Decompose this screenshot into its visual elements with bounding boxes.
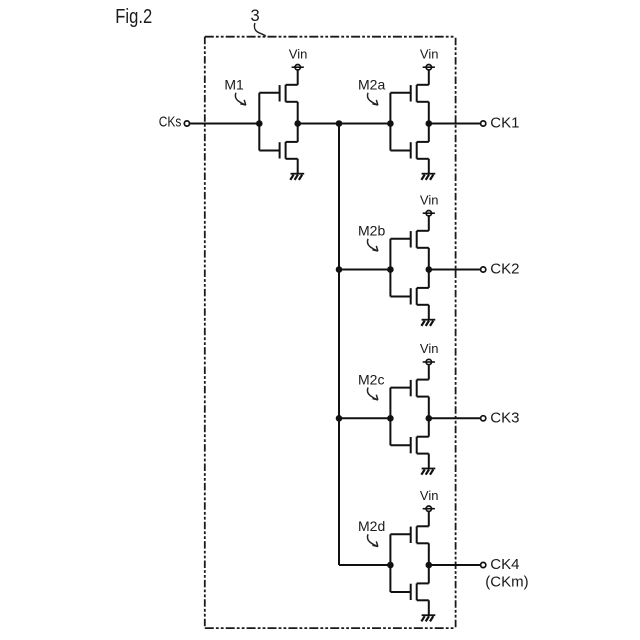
transistor M2b NMOS [390, 288, 428, 305]
wire M2c NMOS source to ground [428, 454, 430, 469]
wire bus corner to M2d gate node [339, 564, 390, 566]
wire M2a output to terminal CK1 [429, 123, 481, 125]
wire M2b output node to NMOS drain [428, 270, 430, 288]
block 3 dash-dot border top edge [205, 36, 456, 38]
wire M2b gate line [389, 239, 391, 297]
svg-text:CK4: CK4 [490, 556, 519, 573]
power terminal Vin of M2c [423, 359, 435, 379]
svg-text:Vin: Vin [289, 46, 308, 61]
wire M2d PMOS drain to output node [428, 543, 430, 565]
terminal CK1 [481, 121, 486, 126]
wire M2c gate line [389, 388, 391, 446]
svg-text:M2c: M2c [358, 371, 384, 387]
wire M2d gate line [389, 534, 391, 592]
wire M1 NMOS source to ground [297, 159, 299, 174]
ground of M2d [421, 615, 435, 621]
node M2d output junction [426, 562, 433, 569]
ground of M2c [421, 469, 435, 475]
svg-text:(CKm): (CKm) [485, 573, 528, 590]
wire M2d output node to NMOS drain [428, 565, 430, 583]
wire M2d NMOS source to ground [428, 600, 430, 615]
node M2a output junction [426, 120, 433, 127]
svg-text:Vin: Vin [420, 46, 439, 61]
svg-text:Vin: Vin [420, 192, 439, 207]
block 3 dash-dot border right edge [455, 37, 457, 628]
ground of M2a [421, 174, 435, 180]
wire bus junction to M2a gate node [339, 123, 390, 125]
svg-text:M2d: M2d [358, 518, 385, 534]
ground of M2b [421, 320, 435, 326]
leader from label 3 to block border [254, 23, 265, 36]
leader arrow to M1 [235, 93, 246, 105]
leader arrow to M2b [367, 239, 378, 251]
wire M2c output to terminal CK3 [429, 417, 481, 419]
wire M2b PMOS drain to output node [428, 248, 430, 270]
terminal CKs [184, 121, 189, 126]
leader arrow to M2d [367, 534, 378, 546]
svg-text:Vin: Vin [420, 488, 439, 503]
transistor M1 PMOS [259, 85, 297, 102]
transistor M2a PMOS [390, 85, 428, 102]
node M2c gate junction [387, 415, 394, 422]
wire M2d output to terminal CK4 [429, 564, 481, 566]
ground of M1 [290, 174, 304, 180]
wire M2a NMOS source to ground [428, 159, 430, 174]
svg-text:CK1: CK1 [490, 115, 519, 132]
power terminal Vin of M2a [423, 65, 435, 85]
node bus junction row 3 [336, 415, 343, 422]
wire M1 output to bus junction [298, 123, 339, 125]
terminal CK4 [481, 562, 486, 567]
transistor M2d PMOS [390, 526, 428, 543]
transistor M2c PMOS [390, 380, 428, 397]
wire M1 PMOS drain to output node [297, 102, 299, 124]
wire M2b NMOS source to ground [428, 305, 430, 320]
transistor M2d NMOS [390, 583, 428, 600]
node bus junction row 1 [336, 120, 343, 127]
node M2c output junction [426, 415, 433, 422]
wire M2a PMOS drain to output node [428, 102, 430, 124]
svg-text:M2a: M2a [358, 77, 385, 93]
svg-text:Vin: Vin [420, 341, 439, 356]
svg-text:Fig.2: Fig.2 [115, 5, 152, 28]
leader arrow to M2a [367, 93, 378, 105]
node M1 gate junction [256, 120, 263, 127]
transistor M2a NMOS [390, 142, 428, 159]
power terminal Vin of M2b [423, 211, 435, 231]
block 3 dash-dot border bottom edge [205, 627, 456, 629]
transistor M2b PMOS [390, 231, 428, 248]
terminal CK3 [481, 416, 486, 421]
wire bus to M2c gate node [339, 417, 390, 419]
svg-text:M1: M1 [224, 77, 244, 93]
power terminal Vin of M1 [292, 65, 304, 85]
wire M2a output node to NMOS drain [428, 124, 430, 142]
wire bus to M2b gate node [339, 269, 390, 271]
svg-text:M2b: M2b [358, 223, 385, 239]
node M2a gate junction [387, 120, 394, 127]
node M1 output junction [294, 120, 301, 127]
svg-text:CK3: CK3 [490, 409, 519, 426]
wire M2c output node to NMOS drain [428, 418, 430, 436]
transistor M1 NMOS [259, 142, 297, 159]
block 3 dash-dot border left edge [204, 37, 206, 628]
svg-text:3: 3 [251, 7, 260, 25]
transistor M2c NMOS [390, 437, 428, 454]
node M2b gate junction [387, 266, 394, 273]
wire M2a gate line [389, 93, 391, 151]
wire vertical bus [338, 124, 340, 566]
terminal CK2 [481, 267, 486, 272]
wire M2b output to terminal CK2 [429, 269, 481, 271]
node bus junction row 2 [336, 266, 343, 273]
wire M2c PMOS drain to output node [428, 397, 430, 419]
node M2d gate junction [387, 562, 394, 569]
wire CKs to M1 gate node [190, 123, 260, 125]
svg-text:CK2: CK2 [490, 261, 519, 278]
power terminal Vin of M2d [423, 506, 435, 526]
node M2b output junction [426, 266, 433, 273]
svg-text:CKs: CKs [159, 113, 182, 130]
leader arrow to M2c [367, 388, 378, 400]
wire M1 gate line [258, 93, 260, 151]
wire M1 output node to NMOS drain [297, 124, 299, 142]
